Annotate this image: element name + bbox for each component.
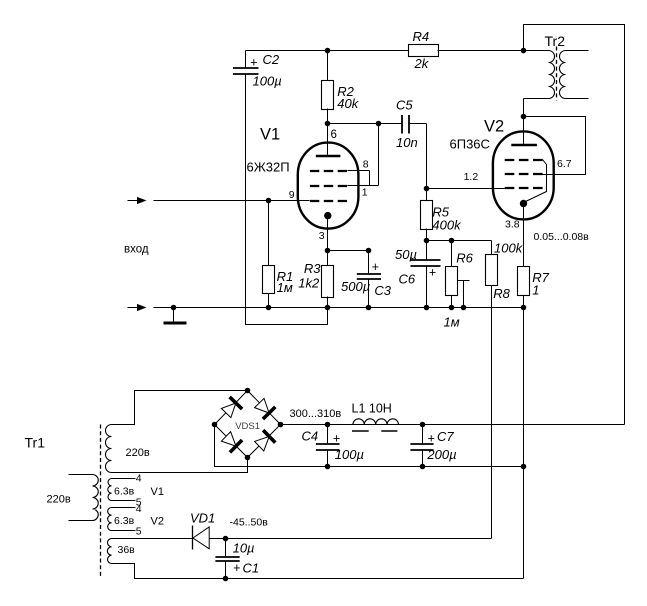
diode VD1 — [112, 538, 193, 540]
input arrow bottom — [128, 307, 139, 309]
svg-text:5: 5 — [136, 526, 142, 538]
svg-text:40k: 40k — [337, 96, 359, 111]
capacitor C6 — [426, 241, 428, 260]
wire 36v bottom return — [112, 564, 524, 579]
svg-text:1.2: 1.2 — [464, 171, 479, 183]
svg-text:4: 4 — [136, 503, 142, 515]
node R2-top junction — [325, 48, 331, 54]
node R3-bottom junction — [325, 305, 331, 311]
svg-text:50µ: 50µ — [395, 247, 417, 262]
wire R4 to Tr2 junction — [438, 50, 524, 52]
svg-text:500µ: 500µ — [341, 279, 370, 294]
svg-text:+: + — [372, 260, 379, 274]
svg-text:Tr1: Tr1 — [25, 435, 46, 451]
resistor R8 — [491, 241, 493, 255]
svg-text:6.3в: 6.3в — [114, 486, 135, 498]
svg-text:+: + — [233, 561, 240, 575]
svg-text:вход: вход — [124, 244, 149, 256]
svg-text:6: 6 — [331, 129, 337, 141]
capacitor C7 — [422, 425, 424, 445]
svg-text:1: 1 — [362, 187, 368, 199]
wire input top — [154, 200, 310, 202]
resistor R6 — [451, 241, 453, 267]
bridge rectifier VDS1 — [215, 391, 281, 458]
node R5-bottom junction — [424, 238, 430, 244]
capacitor C3 — [368, 251, 370, 274]
node V1-anode junction — [325, 121, 331, 127]
svg-text:C5: C5 — [396, 98, 413, 113]
node V2-grid junction — [424, 186, 430, 192]
svg-text:3.8: 3.8 — [505, 219, 520, 231]
svg-text:+: + — [429, 266, 436, 280]
wire Tr2 primary to V2 anode node — [523, 99, 525, 117]
resistor R1 — [268, 201, 270, 266]
node Tr2-primary-top junction — [521, 48, 527, 54]
tube V1 — [298, 143, 359, 229]
svg-text:1м: 1м — [277, 280, 293, 295]
svg-text:6П36С: 6П36С — [450, 137, 490, 152]
node R1-bottom junction — [266, 305, 272, 311]
capacitor C5 — [379, 123, 403, 125]
svg-text:9: 9 — [289, 189, 295, 201]
node ground junction — [171, 305, 177, 311]
node C4-top junction — [325, 422, 331, 428]
svg-text:4: 4 — [136, 473, 142, 485]
svg-text:+: + — [333, 432, 340, 446]
svg-text:220в: 220в — [126, 447, 150, 459]
node R6-top junction — [449, 238, 455, 244]
svg-text:Tr2: Tr2 — [545, 33, 566, 49]
node C5-left junction — [376, 121, 382, 127]
svg-text:200µ: 200µ — [426, 447, 456, 462]
svg-text:VD1: VD1 — [190, 511, 215, 526]
node C3-top junction — [366, 248, 372, 254]
node V1-cathode junction — [325, 248, 331, 254]
svg-text:+: + — [427, 432, 434, 446]
resistor R2 — [327, 51, 329, 81]
svg-text:C1: C1 — [243, 560, 260, 575]
resistor R4 — [409, 45, 439, 57]
capacitor C4 — [327, 425, 329, 445]
node PSU-ground junction — [521, 464, 527, 470]
capacitor C1 — [225, 539, 227, 557]
svg-text:6.7: 6.7 — [557, 158, 572, 170]
svg-text:100k: 100k — [494, 241, 524, 256]
svg-text:R3: R3 — [304, 261, 321, 276]
svg-text:1k2: 1k2 — [298, 275, 320, 290]
svg-text:100µ: 100µ — [253, 74, 282, 89]
svg-text:36в: 36в — [118, 544, 136, 556]
svg-text:L1 10H: L1 10H — [352, 402, 392, 416]
input arrow top — [128, 200, 139, 202]
svg-text:6Ж32П: 6Ж32П — [247, 160, 290, 175]
node bridge-right vertex — [278, 422, 284, 428]
svg-text:400k: 400k — [432, 218, 462, 233]
wire bias row — [427, 240, 492, 242]
svg-text:R6: R6 — [456, 251, 473, 266]
svg-text:8: 8 — [363, 159, 369, 171]
capacitor C2 — [245, 51, 247, 69]
resistor R7 — [518, 267, 530, 296]
node V2-anode junction — [521, 114, 527, 120]
svg-text:C3: C3 — [374, 283, 391, 298]
node R6-bottom junction — [449, 305, 455, 311]
node C1-bottom junction — [223, 576, 229, 582]
resistor R5 — [421, 201, 433, 230]
node bridge-left vertex — [212, 422, 218, 428]
wire B+ 300v — [281, 424, 625, 426]
node R6-wiper-bottom junction — [461, 305, 467, 311]
wire ground bus — [154, 307, 524, 309]
svg-text:1: 1 — [532, 283, 539, 298]
svg-text:100µ: 100µ — [335, 447, 364, 462]
node C6-bottom junction — [424, 305, 430, 311]
node C7-bottom junction — [420, 464, 426, 470]
wire V2 g2-to-anode strap — [524, 117, 586, 175]
wire V2 cathode to PSU ground — [523, 308, 525, 579]
svg-text:V2: V2 — [484, 118, 504, 136]
svg-text:R4: R4 — [413, 29, 430, 44]
wire top-right rail — [524, 25, 625, 425]
svg-text:6.3в: 6.3в — [114, 515, 135, 527]
svg-text:V2: V2 — [151, 516, 164, 528]
wire V2 grid — [427, 188, 505, 190]
node R7-bottom junction — [521, 305, 527, 311]
node R1-top junction — [266, 198, 272, 204]
wire C2 to ground detour — [246, 91, 328, 325]
svg-text:-45..50в: -45..50в — [230, 517, 269, 529]
wire V1 anode node row — [328, 123, 379, 125]
inductor L1 — [353, 419, 399, 425]
svg-text:C4: C4 — [302, 429, 319, 444]
svg-text:3: 3 — [319, 230, 325, 242]
ground — [173, 308, 175, 323]
svg-text:R8: R8 — [493, 286, 510, 301]
node C3-bottom junction — [366, 305, 372, 311]
svg-text:C6: C6 — [399, 272, 416, 287]
svg-text:2k: 2k — [414, 56, 430, 71]
tube V2 — [493, 131, 554, 219]
node C7-top junction — [420, 422, 426, 428]
wire PSU ground bus — [215, 425, 524, 467]
wire B+ rail C2 corner to R4 — [246, 50, 409, 52]
svg-text:V1: V1 — [260, 126, 280, 144]
svg-text:0.05...0.08в: 0.05...0.08в — [534, 231, 590, 243]
node C4-bottom junction — [325, 464, 331, 470]
node bridge-top vertex — [245, 388, 251, 394]
wire 220v-sec bottom to bridge — [112, 458, 248, 473]
svg-text:10n: 10n — [396, 135, 418, 150]
svg-text:C7: C7 — [437, 429, 454, 444]
svg-text:220в: 220в — [47, 494, 71, 506]
resistor R3 — [327, 251, 329, 266]
svg-text:V1: V1 — [151, 486, 164, 498]
svg-text:+: + — [250, 56, 257, 70]
svg-text:300...310в: 300...310в — [290, 408, 342, 420]
svg-text:C2: C2 — [263, 52, 280, 67]
svg-text:1м: 1м — [444, 314, 460, 329]
node C1-top junction — [223, 536, 229, 542]
wire 220v-sec top to bridge — [112, 391, 248, 425]
svg-text:VDS1: VDS1 — [235, 421, 260, 432]
wire cathode to C3 — [328, 250, 369, 252]
node bridge-bottom vertex — [245, 455, 251, 461]
svg-text:10µ: 10µ — [233, 541, 255, 556]
